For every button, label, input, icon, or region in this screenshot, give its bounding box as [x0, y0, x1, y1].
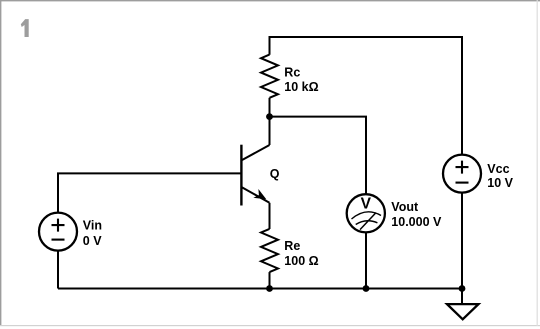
- node collector junction: [266, 113, 273, 120]
- svg-text:0 V: 0 V: [83, 234, 102, 248]
- wire Re bottom to rail: [269, 272, 271, 288]
- node voltmeter rail junction: [363, 285, 370, 292]
- svg-text:10.000 V: 10.000 V: [391, 215, 442, 229]
- svg-text:Q: Q: [270, 167, 280, 181]
- svg-text:Vout: Vout: [391, 200, 419, 214]
- resistor Rc: [261, 55, 278, 98]
- wire voltmeter bottom to rail: [365, 232, 367, 288]
- sheet number: [21, 19, 29, 37]
- wire Vcc bottom to ground: [461, 193, 463, 305]
- svg-text:Vin: Vin: [83, 218, 102, 232]
- wire bottom rail: [58, 288, 462, 290]
- transistor Q: [241, 145, 269, 206]
- svg-text:10 kΩ: 10 kΩ: [284, 80, 318, 94]
- svg-text:Rc: Rc: [284, 65, 300, 79]
- svg-text:V: V: [361, 196, 372, 213]
- svg-text:Vcc: Vcc: [487, 162, 509, 176]
- wire top rail Rc top to Vcc top: [270, 37, 463, 155]
- node Re rail junction: [266, 285, 273, 292]
- node ground junction: [459, 285, 466, 292]
- voltage source Vcc: [443, 155, 481, 193]
- svg-text:100 Ω: 100 Ω: [284, 254, 318, 268]
- wire emitter to Re: [269, 203, 271, 229]
- wire collector node to voltmeter top: [270, 117, 367, 195]
- voltage source Vin: [39, 213, 77, 251]
- resistor Re: [261, 229, 278, 272]
- voltmeter Vout: [347, 194, 385, 232]
- wire Vin bottom to rail: [57, 251, 59, 289]
- svg-text:Re: Re: [284, 239, 300, 253]
- svg-text:10 V: 10 V: [487, 176, 513, 190]
- ground: [447, 304, 479, 319]
- wire Vin top to transistor base: [58, 173, 241, 213]
- wire Rc bottom to collector: [269, 98, 271, 145]
